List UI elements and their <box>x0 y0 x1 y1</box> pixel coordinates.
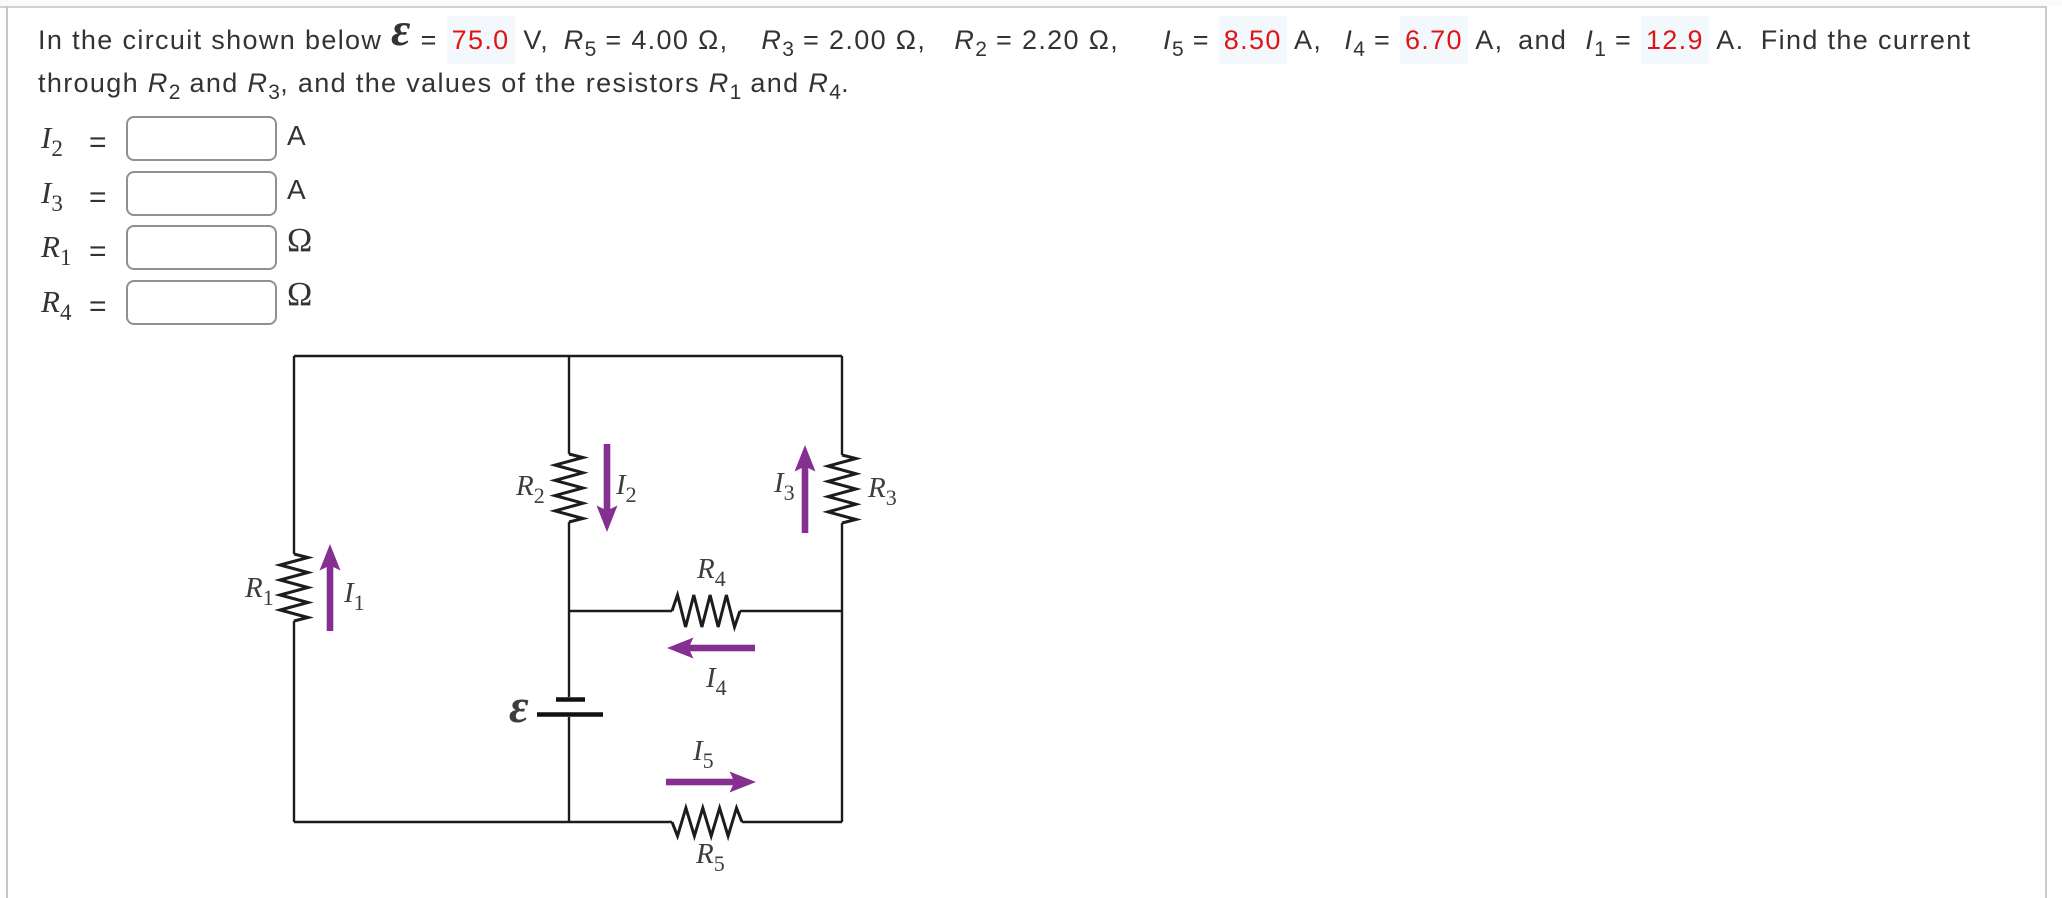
battery E short (negative) plate <box>556 697 585 702</box>
input row R4 <box>41 284 72 320</box>
wire middle vertical lower <box>568 717 570 822</box>
wire middle vertical mid <box>568 522 570 697</box>
wire middle horizontal left <box>569 610 672 612</box>
resistor R5 <box>672 808 742 836</box>
wire left upper <box>293 356 295 554</box>
input row R1 <box>41 229 72 265</box>
svg-text:R5: R5 <box>695 838 725 876</box>
svg-text:ε: ε <box>509 680 529 733</box>
resistor R1 <box>280 554 308 621</box>
current arrow I4 <box>667 638 755 659</box>
svg-text:I2: I2 <box>615 469 637 507</box>
wire middle vertical upper <box>568 356 570 454</box>
svg-text:R1: R1 <box>244 572 274 610</box>
wire right lower <box>841 523 843 822</box>
current arrow I1 <box>320 544 341 631</box>
wire left lower <box>293 621 295 822</box>
wire right upper <box>841 356 843 455</box>
svg-text:I3: I3 <box>773 467 795 505</box>
wire bottom left <box>294 821 672 823</box>
current arrow I5 <box>666 772 756 793</box>
svg-text:R3: R3 <box>867 472 897 510</box>
resistor R3 <box>828 455 856 523</box>
svg-text:I5: I5 <box>692 735 714 773</box>
svg-text:R2: R2 <box>515 470 545 508</box>
circuit schematic <box>230 330 950 898</box>
current arrow I3 <box>795 445 816 533</box>
svg-text:I4: I4 <box>705 662 727 700</box>
svg-text:R4: R4 <box>696 553 726 591</box>
labels <box>244 467 897 876</box>
input row I2 <box>41 120 63 156</box>
current arrow I2 <box>597 444 618 532</box>
wire middle horizontal right <box>740 610 842 612</box>
resistor R2 <box>555 454 583 522</box>
wire bottom right <box>742 821 842 823</box>
battery E long (positive) plate <box>537 712 603 717</box>
input row I3 <box>41 175 63 211</box>
resistor R4 <box>672 595 740 627</box>
wire top <box>294 355 842 357</box>
svg-text:I1: I1 <box>343 577 365 615</box>
